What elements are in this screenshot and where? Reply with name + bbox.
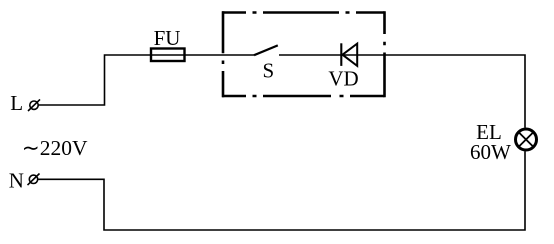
fuse FU xyxy=(151,49,185,62)
svg-text:FU: FU xyxy=(154,26,181,50)
svg-text:VD: VD xyxy=(328,67,358,91)
svg-text:N: N xyxy=(9,168,24,192)
diode VD xyxy=(341,43,357,66)
switch S blade xyxy=(254,45,278,55)
svg-text:L: L xyxy=(10,91,23,115)
svg-text:S: S xyxy=(263,59,275,83)
terminal L xyxy=(28,99,40,111)
dash-dot enclosure box xyxy=(222,11,385,97)
lamp EL xyxy=(516,129,537,150)
wire L terminal to riser and top wire to switch xyxy=(39,55,255,105)
terminal N xyxy=(28,174,40,186)
svg-text:∼220V: ∼220V xyxy=(22,136,88,160)
wire lamp bottom, bottom return, up to N terminal xyxy=(38,151,525,230)
svg-text:60W: 60W xyxy=(470,140,511,164)
wire switch right to top-right corner down to lamp top xyxy=(279,55,525,128)
